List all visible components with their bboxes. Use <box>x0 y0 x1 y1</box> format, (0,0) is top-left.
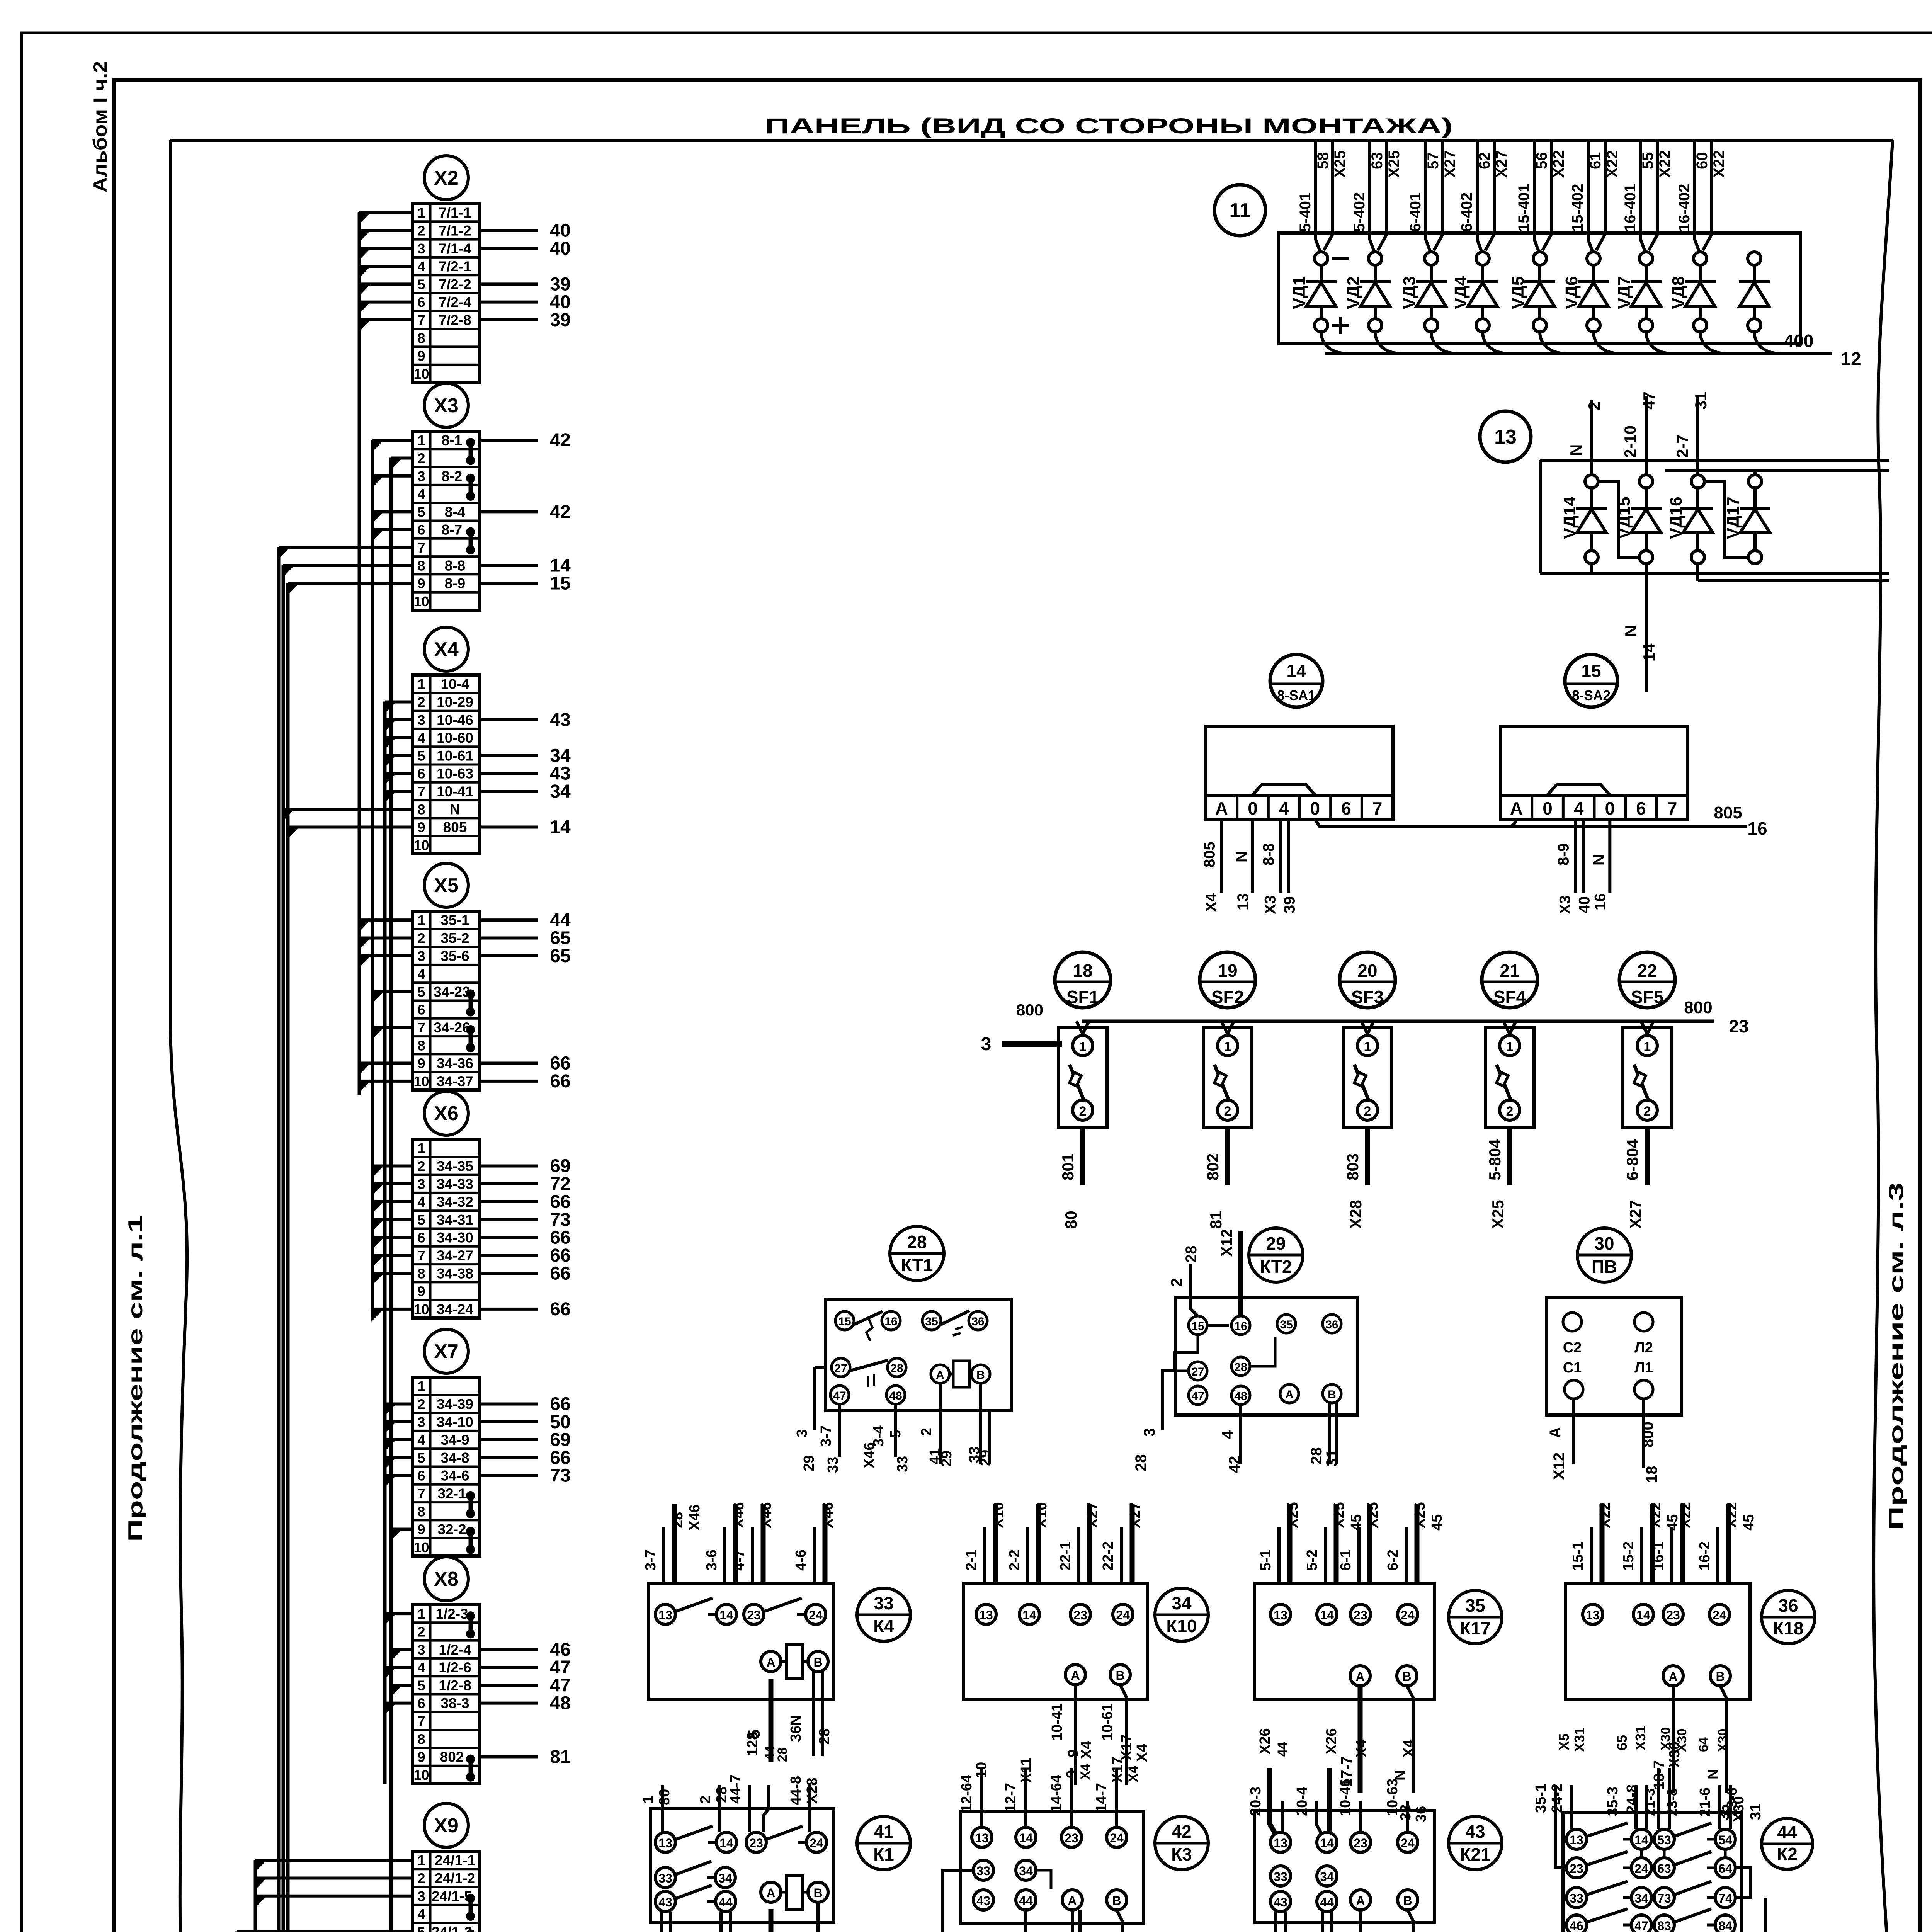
svg-text:А: А <box>1071 1668 1080 1682</box>
svg-text:66: 66 <box>550 1263 570 1284</box>
svg-text:33: 33 <box>874 1593 893 1613</box>
svg-text:Продолжение см. л.3: Продолжение см. л.3 <box>1885 1182 1908 1530</box>
svg-text:3: 3 <box>1141 1428 1158 1437</box>
svg-text:34-37: 34-37 <box>437 1073 473 1089</box>
svg-text:4: 4 <box>417 259 425 274</box>
svg-text:14-64: 14-64 <box>1048 1775 1065 1812</box>
svg-text:34-24: 34-24 <box>437 1301 473 1317</box>
svg-text:1: 1 <box>1364 1039 1371 1054</box>
svg-text:X25: X25 <box>1365 1502 1381 1528</box>
svg-text:34: 34 <box>1172 1593 1192 1613</box>
svg-text:29: 29 <box>939 1451 955 1467</box>
svg-text:46: 46 <box>550 1639 570 1660</box>
svg-text:34-38: 34-38 <box>437 1265 473 1281</box>
svg-text:80: 80 <box>656 1789 673 1805</box>
svg-text:400: 400 <box>1784 331 1814 351</box>
svg-text:34-35: 34-35 <box>437 1158 473 1174</box>
svg-text:73: 73 <box>550 1209 570 1230</box>
svg-text:39: 39 <box>550 274 570 294</box>
svg-text:64: 64 <box>1718 1862 1732 1876</box>
svg-text:10-61: 10-61 <box>1099 1703 1116 1741</box>
svg-text:3-4: 3-4 <box>871 1425 887 1447</box>
svg-text:34-6: 34-6 <box>440 1468 469 1484</box>
svg-text:10-60: 10-60 <box>437 730 473 746</box>
svg-text:35-1: 35-1 <box>1533 1784 1549 1813</box>
svg-text:11: 11 <box>1230 199 1251 222</box>
svg-text:2: 2 <box>1079 1104 1087 1119</box>
svg-text:4: 4 <box>417 1432 425 1448</box>
svg-text:14: 14 <box>1640 643 1658 662</box>
svg-text:10-46: 10-46 <box>1337 1779 1354 1816</box>
svg-text:X46: X46 <box>820 1502 836 1528</box>
svg-text:33: 33 <box>1570 1891 1583 1905</box>
svg-text:34-9: 34-9 <box>440 1432 469 1448</box>
svg-text:X28: X28 <box>1347 1200 1365 1229</box>
svg-text:VД2: VД2 <box>1344 276 1363 309</box>
svg-text:8-4: 8-4 <box>445 504 466 520</box>
svg-text:13: 13 <box>979 1608 993 1622</box>
svg-text:63: 63 <box>1369 152 1386 170</box>
svg-text:80: 80 <box>1062 1211 1080 1229</box>
svg-text:24-8: 24-8 <box>1624 1784 1640 1814</box>
svg-text:VД7: VД7 <box>1615 276 1634 309</box>
svg-text:14: 14 <box>1636 1608 1650 1622</box>
svg-text:66: 66 <box>550 1071 570 1092</box>
svg-text:805: 805 <box>1201 842 1218 867</box>
svg-text:К2: К2 <box>1777 1844 1798 1864</box>
svg-text:2-7: 2-7 <box>1673 434 1691 458</box>
svg-text:4: 4 <box>417 730 425 746</box>
svg-text:34: 34 <box>550 745 571 766</box>
svg-text:45: 45 <box>1741 1514 1757 1531</box>
svg-text:0: 0 <box>1248 798 1258 818</box>
svg-text:35: 35 <box>1280 1318 1293 1331</box>
svg-text:802: 802 <box>440 1749 464 1765</box>
svg-text:2: 2 <box>1168 1278 1185 1287</box>
svg-text:16: 16 <box>1592 893 1609 911</box>
svg-text:34-33: 34-33 <box>437 1176 473 1192</box>
svg-text:X12: X12 <box>1218 1229 1235 1257</box>
svg-text:10-63: 10-63 <box>1384 1779 1401 1816</box>
svg-text:SF2: SF2 <box>1211 987 1244 1007</box>
svg-text:В: В <box>813 1655 822 1669</box>
svg-text:34-36: 34-36 <box>437 1056 473 1071</box>
svg-text:34-27: 34-27 <box>437 1248 473 1264</box>
svg-text:2: 2 <box>417 694 425 710</box>
svg-text:N: N <box>1590 854 1607 866</box>
svg-text:X10: X10 <box>990 1502 1007 1528</box>
svg-text:36: 36 <box>1413 1806 1429 1822</box>
svg-text:8: 8 <box>417 1037 425 1053</box>
svg-text:1: 1 <box>417 912 425 928</box>
svg-text:7: 7 <box>417 312 425 328</box>
svg-text:8-SA2: 8-SA2 <box>1572 687 1611 703</box>
svg-text:5: 5 <box>888 1430 904 1438</box>
svg-text:10-63: 10-63 <box>437 766 473 782</box>
svg-text:18: 18 <box>1643 1466 1660 1483</box>
svg-text:28: 28 <box>1308 1447 1325 1465</box>
svg-text:9: 9 <box>417 1522 425 1537</box>
svg-text:5: 5 <box>417 1677 425 1693</box>
svg-text:18: 18 <box>1073 961 1092 981</box>
svg-text:2: 2 <box>417 1158 425 1174</box>
svg-text:14: 14 <box>1022 1608 1036 1622</box>
svg-text:8: 8 <box>417 1731 425 1747</box>
svg-text:23: 23 <box>749 1836 763 1850</box>
svg-text:0: 0 <box>1310 798 1320 818</box>
svg-text:6: 6 <box>417 766 425 782</box>
svg-text:24: 24 <box>809 1608 823 1622</box>
svg-text:61: 61 <box>1587 152 1604 170</box>
svg-text:5-2: 5-2 <box>1304 1549 1320 1571</box>
svg-text:44-7: 44-7 <box>728 1774 744 1804</box>
svg-text:2: 2 <box>417 223 425 238</box>
svg-text:81: 81 <box>1207 1211 1225 1229</box>
svg-text:X30: X30 <box>1658 1727 1673 1751</box>
svg-text:803: 803 <box>1344 1153 1362 1180</box>
svg-text:X25: X25 <box>1386 150 1403 178</box>
svg-text:8-8: 8-8 <box>445 558 465 573</box>
svg-text:N: N <box>1567 444 1585 456</box>
svg-text:23-6: 23-6 <box>1724 1787 1740 1817</box>
svg-text:К17: К17 <box>1460 1618 1490 1638</box>
svg-text:42: 42 <box>550 430 570 451</box>
svg-text:66: 66 <box>550 1447 570 1468</box>
svg-text:4: 4 <box>1279 798 1289 818</box>
svg-text:VД4: VД4 <box>1451 276 1470 309</box>
svg-text:X22: X22 <box>1724 1502 1740 1528</box>
svg-text:16-1: 16-1 <box>1650 1541 1667 1571</box>
svg-text:42: 42 <box>1226 1456 1243 1473</box>
svg-text:X22: X22 <box>1711 150 1728 178</box>
svg-text:X8: X8 <box>434 1568 459 1590</box>
svg-text:47: 47 <box>833 1389 846 1402</box>
svg-text:Л2: Л2 <box>1634 1340 1653 1356</box>
svg-text:В: В <box>1112 1894 1121 1908</box>
svg-text:58: 58 <box>1315 152 1332 170</box>
svg-text:22-1: 22-1 <box>1058 1541 1074 1571</box>
svg-text:X30: X30 <box>1716 1729 1730 1752</box>
svg-text:7: 7 <box>417 784 425 799</box>
svg-text:X31: X31 <box>1571 1727 1587 1752</box>
svg-text:5: 5 <box>417 504 425 520</box>
svg-text:К1: К1 <box>873 1844 894 1864</box>
svg-text:65: 65 <box>550 928 570 948</box>
svg-text:34-39: 34-39 <box>437 1396 473 1412</box>
svg-text:10: 10 <box>413 1301 429 1317</box>
svg-text:24: 24 <box>1401 1608 1415 1622</box>
svg-text:6: 6 <box>417 294 425 310</box>
svg-text:X27: X27 <box>1626 1200 1645 1229</box>
svg-text:1: 1 <box>417 1378 425 1394</box>
svg-text:800: 800 <box>1639 1422 1656 1447</box>
svg-text:31: 31 <box>1748 1804 1764 1820</box>
svg-text:13: 13 <box>658 1836 672 1850</box>
svg-text:VД17: VД17 <box>1724 497 1743 539</box>
svg-text:12-64: 12-64 <box>959 1775 975 1812</box>
svg-text:40: 40 <box>550 292 570 313</box>
svg-text:А: А <box>766 1655 775 1669</box>
svg-text:9: 9 <box>417 1284 425 1299</box>
svg-text:X26: X26 <box>1257 1728 1273 1754</box>
svg-text:VД1: VД1 <box>1290 276 1309 309</box>
svg-text:10-46: 10-46 <box>437 712 473 728</box>
svg-text:34: 34 <box>1634 1891 1648 1905</box>
svg-text:15-1: 15-1 <box>1570 1541 1586 1571</box>
svg-text:А: А <box>1356 1894 1365 1908</box>
svg-text:33: 33 <box>976 1864 990 1878</box>
svg-text:1: 1 <box>1079 1039 1087 1054</box>
svg-text:24: 24 <box>1116 1608 1130 1622</box>
svg-text:1: 1 <box>417 1140 425 1156</box>
svg-text:60: 60 <box>1694 152 1711 170</box>
svg-text:14: 14 <box>1634 1833 1648 1847</box>
svg-text:6: 6 <box>417 1230 425 1246</box>
svg-text:35: 35 <box>1465 1595 1485 1616</box>
svg-text:27: 27 <box>1191 1366 1204 1378</box>
svg-text:А: А <box>1510 798 1523 818</box>
svg-text:9: 9 <box>417 1749 425 1765</box>
svg-text:X27: X27 <box>1127 1502 1143 1528</box>
svg-text:10: 10 <box>413 1767 429 1783</box>
svg-text:73: 73 <box>1657 1891 1671 1905</box>
svg-text:5: 5 <box>417 1924 425 1932</box>
svg-text:5: 5 <box>417 748 425 764</box>
svg-text:42: 42 <box>1172 1821 1191 1842</box>
svg-text:X22: X22 <box>1677 1502 1694 1528</box>
svg-text:6: 6 <box>417 1468 425 1484</box>
svg-text:66: 66 <box>550 1245 570 1266</box>
svg-text:КТ2: КТ2 <box>1260 1257 1292 1277</box>
svg-text:47: 47 <box>1640 391 1658 410</box>
svg-text:66: 66 <box>550 1394 570 1414</box>
svg-text:21-3: 21-3 <box>1642 1788 1658 1816</box>
svg-text:43: 43 <box>1274 1895 1287 1909</box>
svg-text:2: 2 <box>417 1624 425 1639</box>
svg-text:X46: X46 <box>758 1502 774 1528</box>
svg-text:28: 28 <box>670 1512 686 1528</box>
svg-text:6-401: 6-401 <box>1407 192 1424 232</box>
svg-text:46: 46 <box>1570 1919 1583 1932</box>
svg-text:X4: X4 <box>1134 1744 1150 1762</box>
svg-text:7/2-8: 7/2-8 <box>439 312 471 328</box>
svg-text:В: В <box>1403 1894 1412 1908</box>
svg-text:8-7: 8-7 <box>442 522 462 538</box>
svg-text:2: 2 <box>918 1428 935 1436</box>
svg-text:45: 45 <box>1348 1514 1364 1531</box>
svg-text:36: 36 <box>971 1315 984 1328</box>
svg-text:0: 0 <box>1605 798 1615 818</box>
svg-text:48: 48 <box>550 1693 570 1714</box>
svg-text:43: 43 <box>658 1895 672 1909</box>
svg-text:2: 2 <box>417 1870 425 1886</box>
svg-text:15-2: 15-2 <box>1621 1541 1637 1571</box>
svg-text:К3: К3 <box>1171 1844 1192 1864</box>
svg-text:32-1: 32-1 <box>437 1486 466 1502</box>
svg-text:SF3: SF3 <box>1351 987 1384 1007</box>
svg-text:64: 64 <box>1696 1737 1711 1752</box>
svg-text:66: 66 <box>550 1053 570 1074</box>
svg-text:63: 63 <box>1657 1862 1671 1876</box>
svg-text:84: 84 <box>1718 1919 1732 1932</box>
svg-text:X27: X27 <box>1442 150 1459 178</box>
svg-text:53: 53 <box>1657 1833 1671 1847</box>
svg-text:14: 14 <box>1320 1608 1334 1622</box>
svg-text:X4: X4 <box>1078 1741 1095 1759</box>
svg-text:45: 45 <box>1429 1514 1445 1531</box>
svg-text:4: 4 <box>1219 1430 1236 1439</box>
svg-text:22: 22 <box>1637 961 1657 981</box>
svg-text:23: 23 <box>747 1608 761 1622</box>
svg-text:8-9: 8-9 <box>445 576 465 592</box>
svg-text:9: 9 <box>417 348 425 364</box>
svg-text:X4: X4 <box>1354 1740 1370 1757</box>
svg-text:2: 2 <box>1506 1104 1514 1119</box>
svg-text:24: 24 <box>1634 1862 1648 1876</box>
svg-text:А: А <box>1215 798 1228 818</box>
svg-text:6-402: 6-402 <box>1458 192 1475 232</box>
svg-text:21: 21 <box>1500 961 1519 981</box>
svg-text:13: 13 <box>1274 1836 1287 1850</box>
svg-text:805: 805 <box>443 820 467 835</box>
svg-text:4: 4 <box>417 486 425 502</box>
svg-text:44: 44 <box>1275 1742 1290 1757</box>
svg-text:13: 13 <box>658 1608 672 1622</box>
svg-text:4: 4 <box>1574 798 1584 818</box>
svg-text:X7: X7 <box>434 1340 459 1363</box>
svg-text:5: 5 <box>417 984 425 1000</box>
svg-text:ПВ: ПВ <box>1592 1257 1617 1277</box>
svg-text:К21: К21 <box>1460 1844 1490 1864</box>
svg-text:5: 5 <box>417 276 425 292</box>
svg-text:8-SA1: 8-SA1 <box>1277 687 1316 703</box>
svg-text:10: 10 <box>413 594 429 609</box>
svg-text:28: 28 <box>890 1362 903 1375</box>
svg-text:23: 23 <box>1354 1836 1367 1850</box>
svg-text:3: 3 <box>417 241 425 257</box>
svg-text:7: 7 <box>1372 798 1383 818</box>
svg-text:24/1-3: 24/1-3 <box>432 1924 472 1932</box>
svg-text:7: 7 <box>1667 798 1677 818</box>
svg-text:47: 47 <box>550 1675 570 1696</box>
svg-text:VД16: VД16 <box>1667 497 1685 539</box>
svg-text:16-2: 16-2 <box>1697 1541 1713 1571</box>
svg-text:23: 23 <box>1073 1608 1087 1622</box>
svg-text:13: 13 <box>1586 1608 1600 1622</box>
svg-text:10: 10 <box>973 1762 990 1778</box>
svg-text:2: 2 <box>417 1396 425 1412</box>
svg-text:13: 13 <box>1274 1608 1287 1622</box>
svg-text:5: 5 <box>417 1450 425 1466</box>
svg-text:6-2: 6-2 <box>1385 1549 1401 1571</box>
svg-text:7/2-2: 7/2-2 <box>439 276 471 292</box>
svg-text:14-7: 14-7 <box>1094 1783 1110 1812</box>
svg-text:31: 31 <box>1692 391 1710 410</box>
svg-text:VД6: VД6 <box>1562 276 1581 309</box>
svg-text:X22: X22 <box>1604 150 1621 178</box>
svg-text:КТ1: КТ1 <box>901 1255 933 1275</box>
svg-text:7/1-2: 7/1-2 <box>439 223 471 238</box>
svg-text:X27: X27 <box>1085 1502 1101 1528</box>
svg-text:3: 3 <box>794 1429 810 1437</box>
svg-text:4: 4 <box>417 966 425 982</box>
svg-text:23-8: 23-8 <box>1664 1788 1680 1816</box>
svg-text:54: 54 <box>1718 1833 1732 1847</box>
svg-text:1/2-3: 1/2-3 <box>435 1606 468 1622</box>
svg-text:VД14: VД14 <box>1560 497 1579 539</box>
svg-text:23: 23 <box>1065 1831 1078 1845</box>
svg-text:24: 24 <box>1713 1608 1726 1622</box>
svg-text:5-401: 5-401 <box>1297 192 1314 232</box>
svg-text:1: 1 <box>417 205 425 221</box>
svg-text:А: А <box>1285 1388 1294 1401</box>
svg-text:34-10: 34-10 <box>437 1414 473 1430</box>
svg-text:2: 2 <box>1644 1104 1651 1119</box>
svg-text:X25: X25 <box>1489 1200 1507 1229</box>
svg-text:805: 805 <box>1714 803 1742 822</box>
svg-text:34: 34 <box>1019 1864 1033 1878</box>
svg-text:1: 1 <box>417 1852 425 1868</box>
svg-text:10: 10 <box>413 837 429 853</box>
svg-text:30: 30 <box>1594 1233 1614 1253</box>
svg-text:X4: X4 <box>434 638 459 661</box>
svg-text:62: 62 <box>1476 152 1493 170</box>
svg-text:14: 14 <box>1286 661 1306 681</box>
svg-text:В: В <box>1328 1388 1336 1401</box>
svg-text:3: 3 <box>417 1176 425 1192</box>
svg-text:7/1-4: 7/1-4 <box>439 241 471 257</box>
svg-text:6: 6 <box>1636 798 1646 818</box>
svg-text:C2: C2 <box>1563 1340 1582 1356</box>
svg-text:16-401: 16-401 <box>1622 184 1639 232</box>
svg-text:33: 33 <box>658 1871 672 1885</box>
svg-text:12: 12 <box>1840 349 1861 369</box>
svg-text:7/2-1: 7/2-1 <box>439 259 471 274</box>
svg-text:SF5: SF5 <box>1631 987 1663 1007</box>
svg-text:800: 800 <box>1016 1001 1043 1019</box>
svg-text:8: 8 <box>417 330 425 346</box>
svg-text:33: 33 <box>825 1457 841 1473</box>
svg-text:X4: X4 <box>1078 1764 1093 1780</box>
svg-text:57: 57 <box>1425 152 1442 170</box>
svg-text:34: 34 <box>550 781 571 802</box>
svg-text:SF1: SF1 <box>1066 987 1099 1007</box>
svg-text:47: 47 <box>1634 1919 1648 1932</box>
svg-text:X4: X4 <box>1202 893 1219 912</box>
svg-text:1: 1 <box>1224 1039 1231 1054</box>
svg-text:В: В <box>1116 1668 1124 1682</box>
svg-text:128: 128 <box>745 1732 761 1756</box>
svg-text:33: 33 <box>1274 1870 1287 1884</box>
svg-text:48: 48 <box>889 1389 902 1402</box>
svg-text:7: 7 <box>417 540 425 556</box>
svg-text:40: 40 <box>1576 896 1593 914</box>
svg-text:35: 35 <box>925 1315 938 1328</box>
svg-text:2: 2 <box>417 450 425 466</box>
svg-text:13: 13 <box>1494 426 1517 448</box>
svg-text:2: 2 <box>417 930 425 946</box>
svg-text:5-804: 5-804 <box>1486 1139 1504 1180</box>
svg-text:81: 81 <box>550 1747 570 1767</box>
svg-text:2: 2 <box>1585 401 1603 410</box>
svg-text:X12: X12 <box>1551 1452 1568 1480</box>
svg-text:65: 65 <box>550 946 570 966</box>
svg-text:74: 74 <box>1718 1891 1732 1905</box>
svg-text:10-41: 10-41 <box>1049 1703 1065 1741</box>
svg-text:3: 3 <box>417 1414 425 1430</box>
svg-text:28: 28 <box>1183 1246 1200 1263</box>
svg-text:36N: 36N <box>788 1715 804 1742</box>
